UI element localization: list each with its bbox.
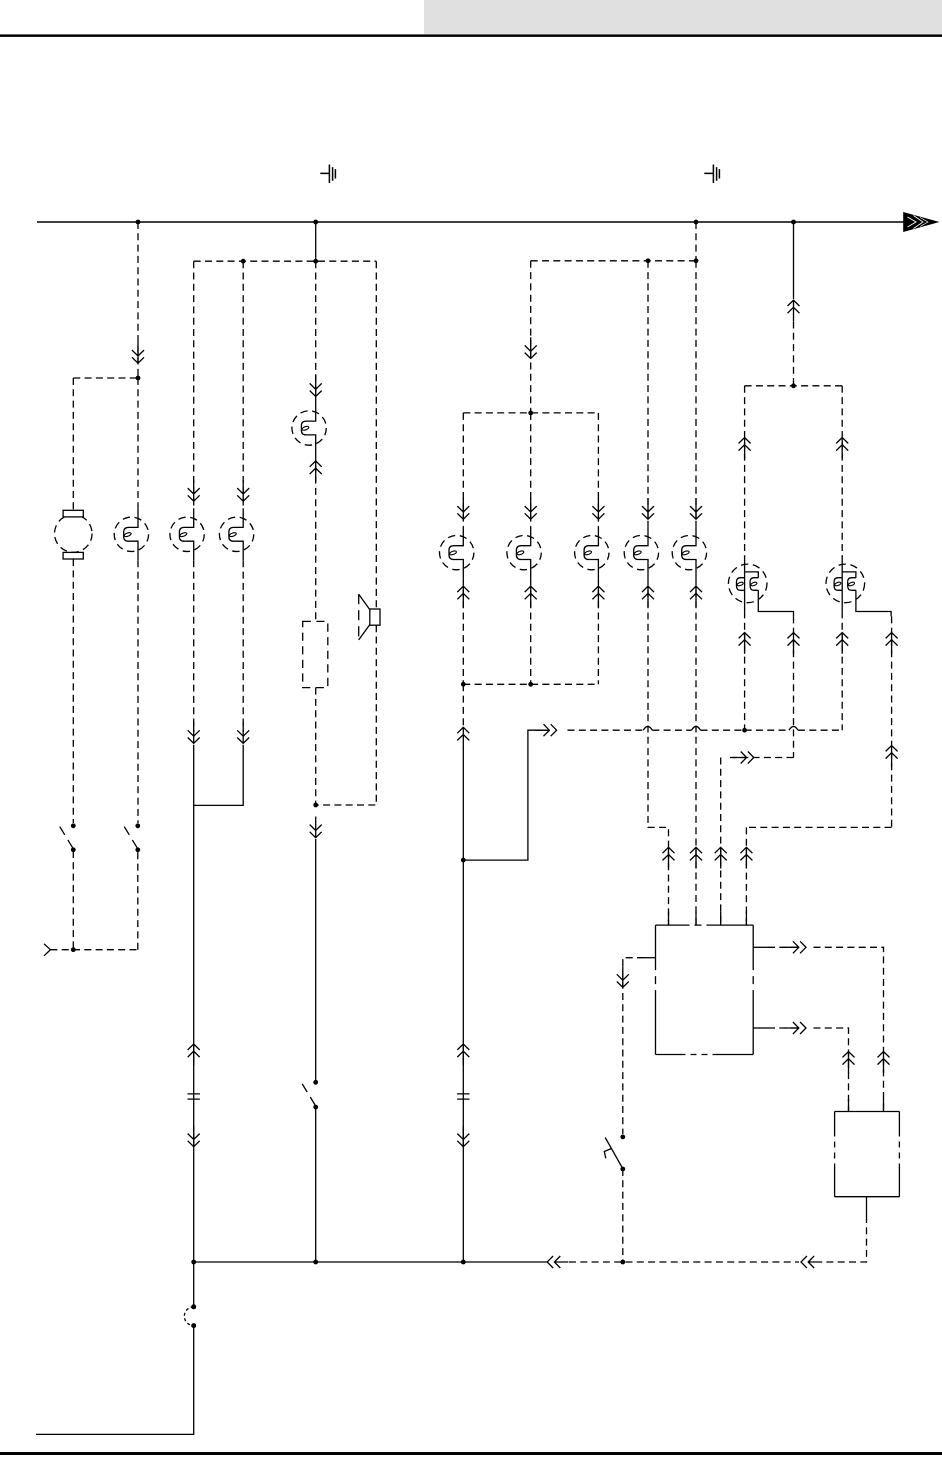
wire E9 lower to flasher	[695, 579, 697, 926]
wire E3 column lower	[242, 560, 244, 732]
arrow up into U2 right	[878, 1052, 890, 1073]
node harness top E2 tap	[241, 259, 246, 264]
node bottom rail E5	[461, 1260, 466, 1265]
wire E5 solid drop	[462, 748, 464, 1262]
top rule	[0, 34, 942, 37]
switch S2	[124, 823, 140, 852]
arrow up lamp2 main	[836, 633, 848, 654]
node box2 bottom mid	[528, 682, 533, 687]
arrow up E8 into flasher	[663, 847, 675, 868]
node box2 bottom left	[461, 682, 466, 687]
arrowhead continuation to next page	[904, 213, 938, 232]
wire U1 right output 1	[753, 946, 768, 948]
crossover hop 1	[643, 726, 652, 730]
node tail feed junction	[461, 858, 466, 863]
wire to motor branch	[73, 377, 138, 379]
arrow up E7	[592, 586, 604, 607]
pin stubs into U1	[668, 912, 670, 926]
lamp E5	[440, 527, 474, 579]
wire E2 solid drop	[193, 745, 195, 1262]
arrow up drop	[457, 727, 469, 748]
wire lamp2 stop lead	[891, 616, 893, 827]
wire tail lamp1 feed	[744, 386, 746, 557]
wire feed drop	[530, 261, 532, 411]
wire E5 column	[462, 413, 464, 527]
connector inline C1	[188, 1094, 200, 1099]
wire harness right edge lower	[316, 625, 377, 805]
wire E6 lower	[530, 579, 532, 685]
arrow up stop lead	[788, 633, 800, 654]
wire B upper	[315, 261, 317, 402]
wire S3 to bottom rail	[315, 1107, 317, 1262]
wire stop link	[727, 757, 794, 759]
wire E2 column lower	[193, 560, 195, 732]
unit U2	[835, 1112, 900, 1197]
wire E3 column upper	[242, 261, 244, 508]
wire bottom rail dashed	[569, 1261, 799, 1263]
arrow left bottom rail 1	[547, 1256, 568, 1268]
switch S3	[302, 1080, 318, 1110]
arrow up E6	[525, 586, 537, 607]
arrow down E8	[642, 498, 654, 519]
wire lamp2 main lower	[841, 611, 843, 730]
arrow right output 1	[785, 941, 806, 953]
node feed E9 tap	[646, 258, 651, 263]
wire stop lead 2 to flasher pin	[745, 827, 747, 925]
dual lamp E11	[826, 555, 891, 616]
wire B solid drop to switch S3	[315, 839, 317, 1082]
wire lamp E1 to switch S2	[137, 560, 139, 823]
node harness top B tap	[313, 259, 318, 264]
resistor R1	[303, 621, 328, 687]
wire E7 lower	[597, 579, 599, 685]
bottom rule	[0, 1452, 942, 1455]
arrow up on D drop	[788, 300, 800, 321]
wire tail lamp2 feed	[841, 386, 843, 557]
wire ground rail	[50, 949, 137, 951]
pin stubs into U2	[848, 1099, 850, 1112]
wire E5 lower	[462, 579, 464, 685]
arrow up E5	[457, 586, 469, 607]
arrow down E3	[237, 480, 249, 501]
ground G2	[704, 165, 719, 184]
arrow up lamp2 feed	[836, 438, 848, 459]
wire E8 column	[647, 261, 649, 527]
wire feed from bus horizontal	[531, 260, 696, 262]
arrow down on drop	[188, 1126, 200, 1147]
wire U1 left output	[644, 957, 656, 959]
node bus junction A	[136, 220, 141, 225]
lamp E3	[219, 508, 253, 560]
wire motor to switch S1	[72, 559, 74, 823]
arrow down E9	[690, 498, 702, 519]
arrow down E7	[592, 498, 604, 519]
wire U1 right output 2	[753, 1027, 768, 1029]
wire resistor to harness bottom	[315, 688, 317, 805]
node ground rail junction	[71, 947, 76, 952]
arrow down B	[310, 375, 322, 396]
arrow up into flasher pin 4	[740, 847, 752, 868]
node bus junction B	[313, 220, 318, 225]
wire D drop	[793, 222, 795, 299]
wire main supply bus	[37, 221, 904, 223]
crossover hop 2	[692, 726, 701, 730]
wire branch A to lamp E1	[137, 378, 139, 508]
wire U2 bottom lead	[866, 1197, 868, 1216]
wire lamp1 main lower	[744, 611, 746, 730]
wire S1 to ground rail	[72, 851, 74, 950]
node box2 top	[528, 411, 533, 416]
page header grey tab	[424, 0, 942, 34]
wire earth run	[36, 1326, 194, 1435]
wire B to resistor	[315, 454, 317, 621]
wire tail feed dashed run	[568, 729, 644, 731]
arrow down E2 lower	[188, 722, 200, 743]
arrow up lamp1 feed	[739, 438, 751, 459]
lamp E6	[507, 527, 541, 579]
wire box3 top edge	[745, 385, 843, 387]
arrow up into U2 left	[843, 1052, 855, 1073]
connector inline C2	[457, 1094, 469, 1099]
crossover hop 3	[789, 726, 798, 730]
arrow right output 2	[785, 1022, 806, 1034]
arrow up lamp1 main	[739, 633, 751, 654]
arrow up drop lower	[457, 1044, 469, 1065]
wire lamp2 stop to flasher	[746, 826, 891, 828]
lamp E8	[624, 527, 658, 579]
wire S2 to ground rail	[137, 851, 139, 950]
arrow up E8	[642, 586, 654, 607]
node feed at C	[694, 258, 699, 263]
node bottom rail E2	[191, 1260, 196, 1265]
arrow down on branch A	[132, 342, 144, 363]
node box3 top	[791, 383, 796, 388]
arrow up stop into flasher	[715, 847, 727, 868]
wire E8 lower to flasher	[648, 579, 669, 926]
arrow down drop lower	[457, 1126, 469, 1147]
wire harness right edge upper	[375, 261, 377, 609]
wire box2 top edge	[463, 412, 598, 414]
node tail lamp 1 junction	[742, 728, 747, 733]
arrow up on drop	[188, 1044, 200, 1065]
lamp E9	[672, 527, 706, 579]
lamp E2	[170, 508, 204, 560]
arrow down E2	[188, 480, 200, 501]
arrow left bottom rail 2	[801, 1256, 822, 1268]
wire branch A down	[137, 222, 139, 378]
wire motor feed	[72, 378, 74, 510]
arrow up E9 into flasher	[690, 847, 702, 868]
node bottom rail S4	[620, 1260, 625, 1265]
wire E2 column upper	[193, 261, 195, 508]
node bottom rail B	[313, 1260, 318, 1265]
ground G1	[320, 165, 335, 184]
node bus junction C	[694, 220, 699, 225]
horn H1	[359, 594, 380, 640]
wire E6 column	[530, 413, 532, 527]
node bus junction D	[791, 220, 796, 225]
motor M1	[55, 510, 93, 559]
arrow up B below lamp	[310, 461, 322, 482]
lamp E1	[114, 508, 148, 560]
node harness bottom	[313, 803, 318, 808]
switch S4	[604, 1135, 625, 1172]
arrow down E3 lower	[237, 722, 249, 743]
arrow right tail feed	[535, 724, 556, 736]
wire rail to connector	[193, 1262, 195, 1307]
wire C to feed	[695, 222, 697, 261]
arrow up E9	[690, 586, 702, 607]
connector C3	[184, 1304, 196, 1328]
wire bottom rail solid	[194, 1261, 548, 1263]
control unit U1	[656, 925, 754, 1054]
wire lamp1 stop lead	[793, 616, 795, 757]
arrow up lamp2 stop upper	[886, 633, 898, 654]
wire S4 to bottom rail	[622, 1169, 624, 1262]
wire tail feed step	[463, 730, 549, 860]
switch S1	[60, 823, 76, 852]
lamp E4	[292, 402, 326, 454]
arrow up lamp2 stop lower	[886, 746, 898, 767]
wire E9 column	[695, 261, 697, 527]
arrow down below harness	[310, 817, 322, 838]
wire E5 drop below box2	[462, 684, 464, 726]
wire box2 bottom edge	[463, 683, 598, 685]
arrow down E6	[525, 498, 537, 519]
wire bus to harness	[315, 222, 317, 261]
wire harness top edge	[194, 260, 377, 262]
wire E7 column	[597, 413, 599, 527]
node A1	[136, 376, 141, 381]
arrow down U1 left	[617, 966, 629, 987]
lamp E7	[575, 527, 609, 579]
arrow down E5	[457, 498, 469, 519]
arrow right stop link	[733, 752, 754, 764]
dual lamp E10	[728, 555, 793, 616]
wire E3 solid drop joins E2	[194, 745, 244, 806]
arrow down feed	[525, 337, 537, 358]
connector to ground	[44, 944, 50, 956]
